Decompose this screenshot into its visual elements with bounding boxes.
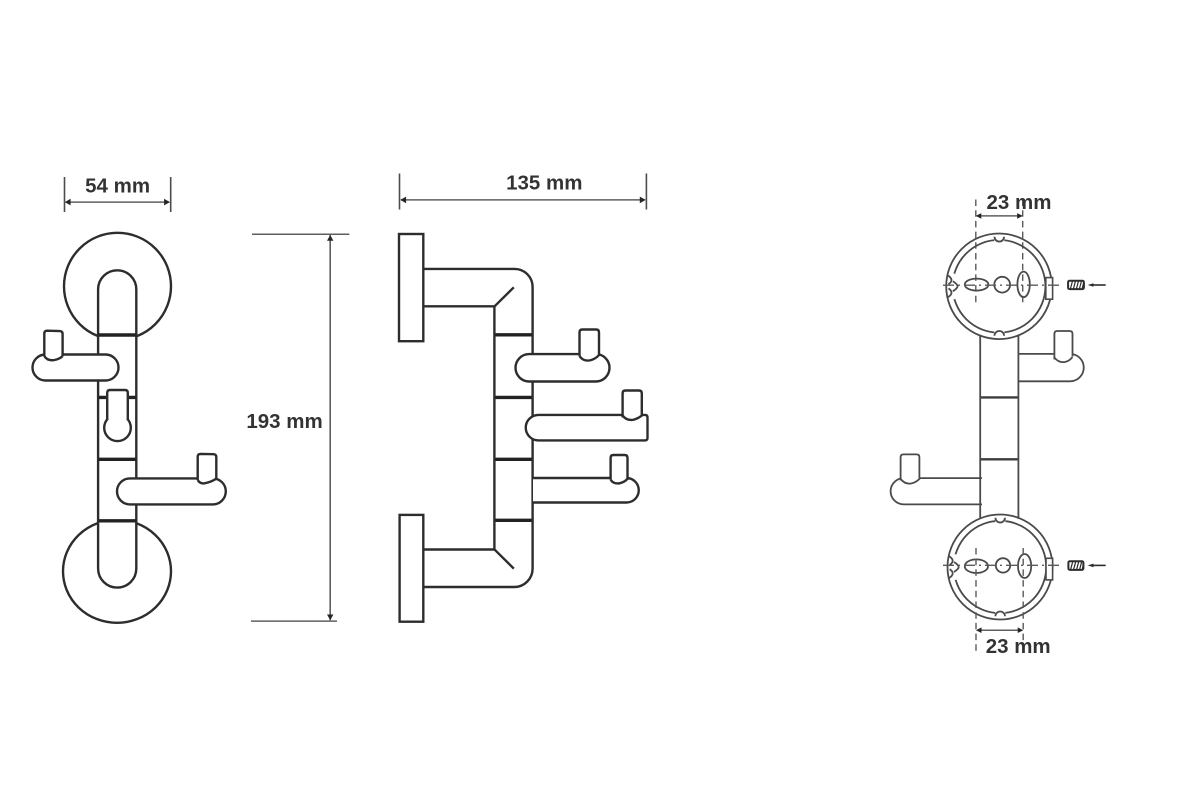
suction plate bottom inner circle (rear) [954, 521, 1046, 613]
tube joint line 1 (side) [496, 333, 532, 336]
bottom notch bottom plate [995, 612, 1005, 615]
svg-text:193 mm: 193 mm [246, 410, 322, 433]
tube joint line 1 (rear) [981, 396, 1018, 398]
dimension 135 mm arrowheads [400, 197, 645, 204]
hook 2 tip (front, middle) [107, 390, 128, 419]
dimension 23 mm bottom arrowheads [976, 627, 1023, 633]
hook 1 tip (rear) [1054, 331, 1072, 360]
horizontal centerline (top plate) [943, 284, 1062, 286]
left wedge notch [953, 281, 958, 291]
svg-text:135 mm: 135 mm [506, 172, 582, 195]
suction plate bottom outer circle (rear) [948, 515, 1053, 620]
top notch bottom plate [995, 519, 1005, 522]
hook 1 arm (front, upper left stadium) [33, 355, 119, 381]
bottom notch on inner circle [994, 331, 1004, 334]
suction plate top outer circle (rear) [946, 233, 1052, 339]
hook 2 arm (side, long stadium) [526, 415, 648, 441]
top elbow miter line (side) [495, 287, 514, 306]
dimension 193 mm bottom bar [251, 620, 337, 622]
tube joint line 4 (side) [496, 519, 532, 522]
vertical tube right edge (rear) [1017, 335, 1019, 518]
keyhole slot horizontal (bottom plate) [965, 559, 988, 573]
wall plate top (side) [399, 234, 423, 341]
keyhole slot vertical (bottom plate) [1018, 554, 1031, 578]
screw hole circle (top plate) [994, 277, 1010, 293]
dimension 23 mm bottom arrow line [977, 629, 1022, 631]
dimension 54 mm ticks [65, 177, 171, 212]
hook 3 arm (side, stadium open at tube) [533, 478, 639, 503]
mounting screw bottom [1068, 561, 1083, 570]
dimension 135 mm ticks [400, 174, 647, 210]
top notch on inner circle [994, 238, 1004, 241]
hook 2 end cap (front, middle circle) [104, 415, 131, 442]
svg-text:54 mm: 54 mm [85, 175, 150, 198]
hook 1 tip bend wave (front) [44, 356, 62, 360]
rod joint line 3 (front) [99, 458, 136, 461]
hook 3 tip bend arc (side) [611, 479, 628, 484]
svg-text:23 mm: 23 mm [986, 635, 1051, 658]
screw hole circle (bottom plate) [996, 558, 1010, 572]
hook 1 tip bend arc (side) [580, 355, 600, 361]
suction cup top (front) [64, 233, 171, 340]
hook 3 tip bend arc (rear) [901, 479, 920, 484]
tube joint line 2 (rear) [981, 458, 1018, 460]
hook 2 tip bend arc (side) [623, 416, 642, 420]
dimension 54 mm arrowheads [65, 199, 170, 206]
left small bump upper [948, 275, 952, 284]
left notch group eraser bottom plate [952, 554, 956, 580]
hook 3 tip bend wave (front) [198, 479, 217, 484]
hook 3 tip (front, lower right) [198, 454, 217, 480]
bottom elbow miter line (side) [495, 550, 514, 569]
rod joint line 4 (front) [99, 519, 136, 522]
dimension 193 mm top bar [252, 233, 349, 235]
left notch group eraser [951, 274, 955, 300]
arrow pointing at top screw [1092, 284, 1106, 286]
wall plate bottom (side) [400, 515, 424, 622]
svg-text:23 mm: 23 mm [987, 191, 1052, 214]
hook 1 arm (rear, pointing right) [1018, 354, 1083, 381]
C-shaped tube body (side) [423, 269, 532, 587]
hook 1 tip (front, upper left) [44, 331, 62, 357]
dimension 193 mm vertical line [329, 235, 331, 620]
hook 1 arm (side, stadium) [516, 354, 610, 381]
hook 3 tip (side) [611, 455, 628, 480]
right clip tab [1046, 278, 1053, 300]
dimension 23 mm top arrow line [977, 215, 1022, 217]
hook 3 arm (front, lower right stadium) [117, 478, 226, 504]
left small bump upper bottom plate [949, 556, 953, 565]
left small bump lower bottom plate [949, 569, 953, 578]
dimension 193 mm arrowheads [327, 235, 333, 620]
suction cup bottom (front) [63, 520, 171, 623]
hook 1 tip (side) [580, 330, 600, 356]
rod joint line 2 (front) [99, 396, 136, 399]
rod joint line 1 (front) [99, 333, 136, 336]
hook 3 arm (rear, pointing left) [891, 478, 982, 504]
tube joint line 2 (side) [496, 396, 532, 399]
hook 3 tip (rear) [901, 454, 920, 480]
dimension 54 mm arrow line [66, 201, 169, 203]
central pivot rod (front) [98, 270, 136, 587]
suction plate top inner circle (rear) [953, 240, 1046, 333]
horizontal centerline (bottom plate) [943, 564, 1062, 566]
dimension 135 mm arrow line [401, 199, 645, 201]
dimension 23 mm top arrowheads [976, 213, 1023, 219]
left small bump lower [948, 288, 952, 297]
dashed extension lines bottom [975, 548, 977, 652]
tube joint line 3 (side) [496, 458, 532, 461]
hook 2 tip (side) [623, 391, 642, 418]
left wedge notch bottom plate [954, 562, 959, 572]
mounting screw top [1068, 281, 1084, 289]
keyhole slot horizontal (top plate) [965, 279, 989, 291]
dimension 23 mm top: dashed extension lines [975, 200, 977, 303]
right clip tab bottom plate [1046, 558, 1053, 580]
vertical tube left edge (rear) [979, 336, 981, 519]
arrow pointing at bottom screw [1092, 564, 1106, 566]
keyhole slot vertical (top plate) [1017, 272, 1029, 298]
hook 1 tip bend arc (rear) [1054, 357, 1072, 362]
